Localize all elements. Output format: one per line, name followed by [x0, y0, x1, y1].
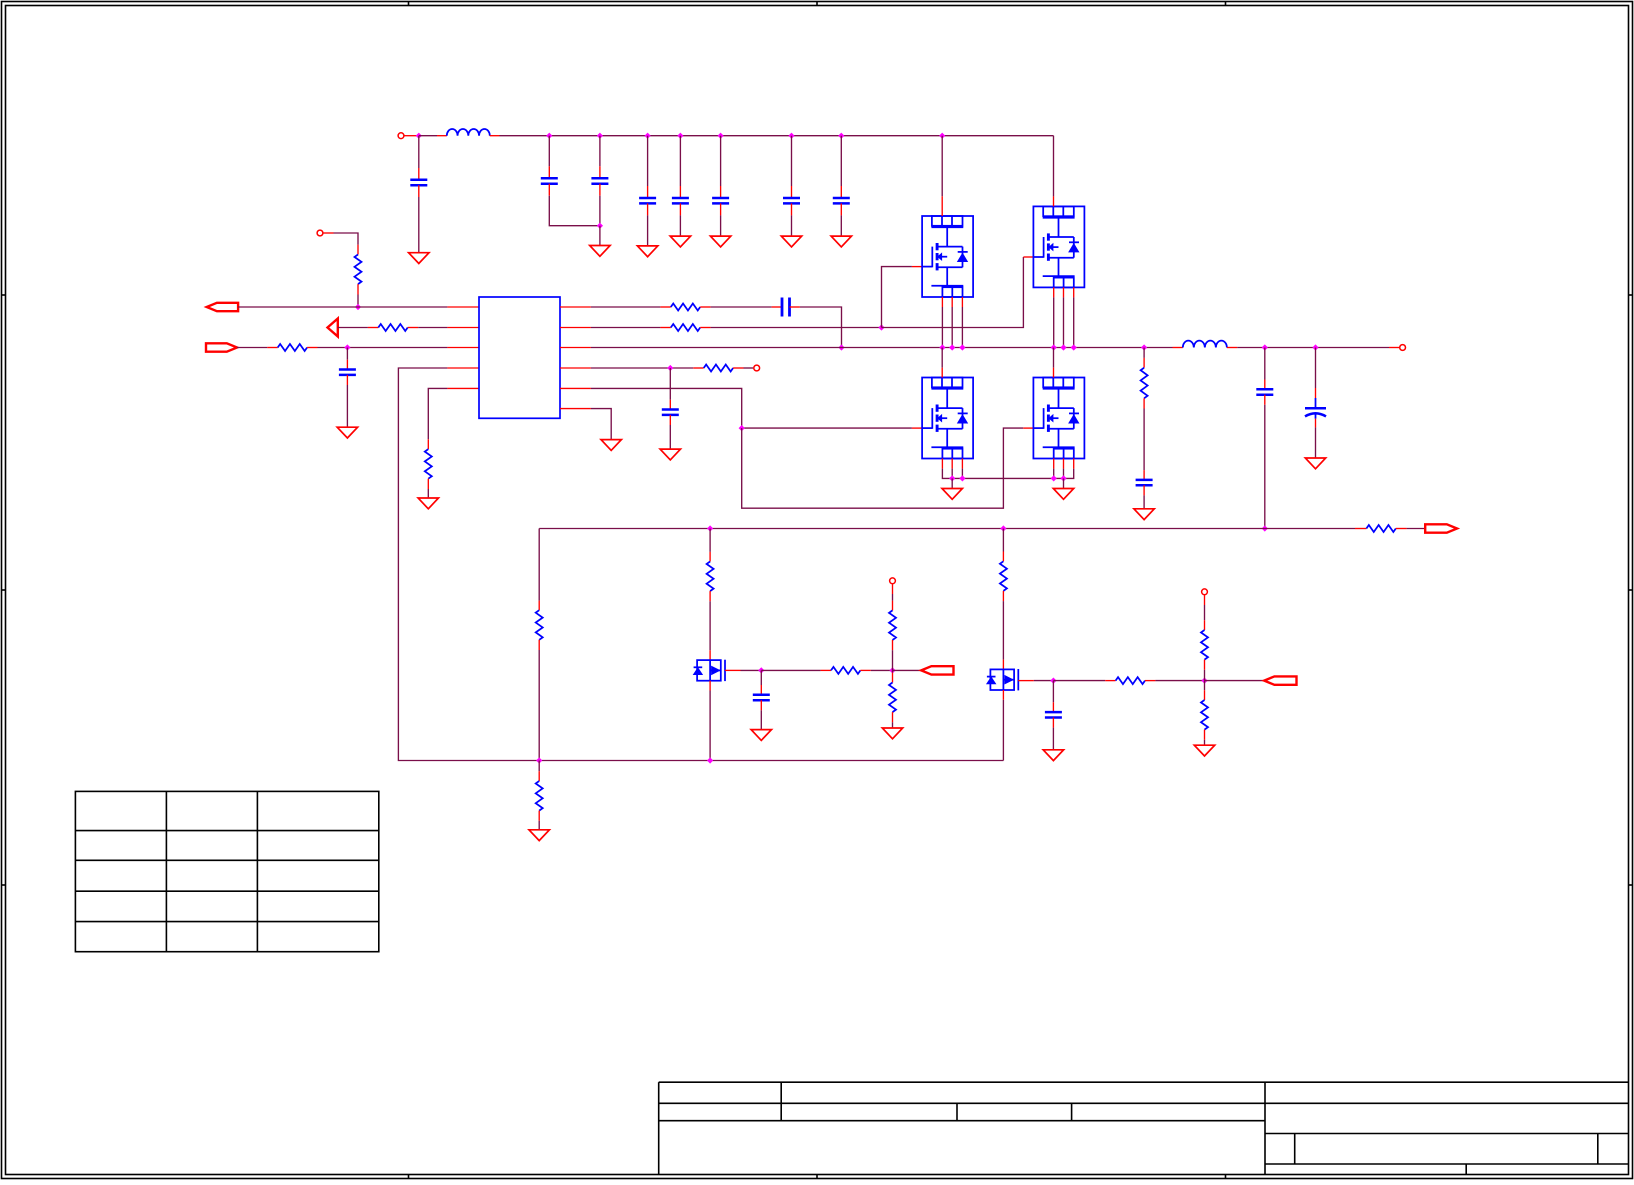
ground under R11 [529, 830, 549, 841]
pin of R2 [408, 327, 419, 329]
pin 6 of U1 [560, 306, 591, 308]
source pin of Q1 [941, 297, 943, 307]
wire C3 bottom [599, 196, 601, 226]
port P5 [921, 666, 953, 674]
pin of C16 [1052, 702, 1054, 712]
wire C9 to ground [346, 385, 348, 427]
junction [718, 133, 724, 139]
pin of C3 [599, 166, 601, 178]
wire U1 ground pin [591, 409, 611, 440]
pin of C1 [418, 168, 420, 180]
resistor R13 [831, 667, 860, 674]
pin of J5 [892, 584, 894, 594]
wire Q1 source [941, 307, 943, 348]
source pin of Q1 [961, 297, 963, 307]
transistor M6 [987, 669, 1018, 690]
pin of C8 [840, 186, 842, 198]
capacitor C10 [781, 298, 784, 317]
title block [659, 1082, 1629, 1174]
wire C16 top [1052, 681, 1054, 703]
ground under R19 [1194, 745, 1214, 756]
pin of C5 [679, 186, 681, 198]
wire Q1 drain [941, 136, 943, 197]
capacitor C13 [1256, 388, 1273, 391]
wire feedback row [539, 528, 1355, 530]
pin of C5 [679, 203, 681, 215]
pin of J3 [1389, 347, 1399, 349]
source pin of Q2 [1053, 287, 1055, 297]
pin of J2 [323, 232, 333, 234]
wire R9 to P4 [1407, 528, 1426, 530]
pin 2 of U1 [447, 327, 479, 329]
junction [949, 475, 955, 481]
wire C11 top [669, 368, 671, 400]
wire Q2 source [1063, 297, 1065, 347]
pin of R3 [267, 347, 277, 349]
wire Q1 source [951, 307, 953, 348]
wire R5 to C10 [711, 306, 772, 308]
wire C9 top [346, 348, 348, 360]
pin of R11 [538, 771, 540, 781]
pin 7 of U1 [560, 327, 591, 329]
pin of C2 [548, 166, 550, 178]
wire C1 top [418, 136, 420, 168]
pin of R1 [357, 284, 359, 294]
junction [889, 667, 895, 673]
pin of C11 [669, 415, 671, 425]
resistor R8 [1141, 368, 1148, 399]
terminal J6 [1202, 589, 1208, 595]
pin of L2 [1227, 347, 1237, 349]
pin of R2 [368, 327, 378, 329]
source pin of Q2 [1063, 287, 1065, 297]
wire SW row [591, 347, 1173, 349]
capacitor C12 [1136, 479, 1153, 482]
wire Q2 source [1073, 297, 1075, 347]
wire R3 to U1 [318, 347, 448, 349]
wire P3 to R3 [237, 347, 267, 349]
resistor R4 [425, 449, 432, 479]
port P4 [1425, 524, 1457, 532]
pin of C10 [790, 306, 800, 308]
pin 3 of U1 [447, 347, 479, 349]
wire R11 top [538, 761, 540, 772]
wire C13 to row B [1264, 405, 1266, 529]
pin of R3 [307, 347, 317, 349]
pin 8 of U1 [560, 347, 591, 349]
pin of C6 [720, 203, 722, 215]
resistor R1 [355, 255, 362, 285]
wire M6 gate [1034, 680, 1054, 682]
capacitor C16 [1045, 711, 1062, 714]
wire divider top [538, 529, 540, 601]
wire U1 to R6 [591, 327, 661, 329]
capacitor C3 [591, 177, 608, 180]
wire Q4 drain [1053, 348, 1055, 368]
capacitor C6 [712, 197, 729, 200]
wire to power ground [951, 478, 953, 488]
pin of C1 [418, 185, 420, 197]
output terminal J3 [1400, 345, 1406, 351]
wire R6 to Q1 gate [711, 327, 882, 329]
pin of L2 [1173, 347, 1183, 349]
junction [878, 324, 884, 330]
junction [1071, 344, 1077, 350]
pin of R5 [660, 306, 670, 308]
wire R14 to junction [892, 650, 894, 670]
wire C15 top [760, 670, 762, 685]
ground under C12 [1134, 509, 1154, 520]
pin of R13 [860, 669, 870, 671]
junction [677, 133, 683, 139]
power ground [1053, 489, 1073, 500]
resistor R10 [536, 610, 543, 640]
wire R8 to C12 [1143, 409, 1145, 471]
ground under C11 [660, 449, 680, 460]
capacitor C14 polarized [1305, 407, 1326, 410]
pin of R6 [700, 327, 710, 329]
pin 1 of U1 [447, 306, 479, 308]
pin of R12 [709, 591, 711, 601]
pin of R8 [1143, 358, 1145, 368]
wire R16 to M6 [1002, 601, 1004, 660]
pin of C15 [760, 700, 762, 710]
pin 10 of U1 [560, 387, 591, 389]
pin of R12 [709, 552, 711, 562]
resistor R12 [707, 562, 714, 592]
source pin of Q3 [961, 459, 963, 469]
wire M5 chain top [709, 529, 711, 552]
wire C4 bottom [647, 215, 649, 246]
wire P1 to U1 [238, 306, 447, 308]
wire VIN rail [419, 135, 437, 137]
wire R17 to junction [1155, 680, 1204, 682]
wire C1 to ground [418, 197, 420, 253]
pin of C4 [647, 186, 649, 198]
wire P2 to R2 [338, 327, 368, 329]
wire C5 bottom [679, 215, 681, 236]
junction [838, 344, 844, 350]
pin of C7 [791, 203, 793, 215]
wire Q3 source [961, 469, 963, 479]
wire junction to R19 [1204, 681, 1206, 691]
drain pin of Q4 [1053, 368, 1055, 378]
transistor Q2 [1033, 206, 1084, 287]
gate pin of Q1 [912, 266, 922, 268]
drain pin of M6 [1002, 660, 1004, 670]
resistor R19 [1201, 700, 1208, 730]
junction [1060, 344, 1066, 350]
wire R15 to ground [892, 722, 894, 728]
wire to power ground [1063, 478, 1065, 488]
wire Q1 source [961, 307, 963, 348]
wire M6 source [1002, 700, 1004, 761]
resistor R16 [1000, 561, 1007, 591]
ground under C4 [637, 246, 657, 257]
pin of R9 [1396, 528, 1407, 530]
wire C10 to SW [800, 307, 842, 348]
junction [838, 133, 844, 139]
junction [344, 344, 350, 350]
wire Q4 source [1053, 469, 1055, 479]
junction [959, 344, 965, 350]
pin of C2 [548, 184, 550, 196]
pin of C10 [772, 306, 782, 308]
junction [707, 525, 713, 531]
pin of R10 [538, 640, 540, 650]
capacitor C4 [639, 197, 656, 200]
input terminal J1 [398, 133, 404, 139]
wire junction to R15 [892, 670, 894, 672]
inductor L1 [447, 129, 490, 136]
pin 5 of U1 [447, 387, 479, 389]
wire Q2 gate [882, 257, 1024, 328]
terminal J4 [754, 365, 760, 371]
capacitor C2 [541, 177, 558, 180]
wire Q2 source [1053, 297, 1055, 347]
wire C13 top [1264, 348, 1266, 380]
pin of R18 [1204, 660, 1206, 670]
source pin of Q1 [951, 297, 953, 307]
junction [597, 223, 603, 229]
wire U1 to Q3 gate [591, 388, 912, 428]
wire U1 pin5 to R4 [428, 388, 447, 439]
wire R4 to ground [427, 489, 429, 498]
junction [1312, 344, 1318, 350]
drain pin of Q1 [941, 196, 943, 216]
pin of R5 [700, 306, 710, 308]
junction [707, 757, 713, 763]
pin of R4 [427, 439, 429, 449]
wire to R13 [761, 669, 820, 671]
junction [645, 133, 651, 139]
drain pin of Q2 [1053, 196, 1055, 206]
pin of R1 [357, 245, 359, 255]
ground under C15 [751, 730, 771, 741]
pin 11 of U1 [560, 408, 591, 410]
junction [788, 133, 794, 139]
port P6 [1264, 676, 1296, 684]
transistor M5 [694, 660, 725, 681]
wire C7 bottom [791, 215, 793, 236]
pin of C14 [1315, 419, 1317, 428]
ground under C8 [831, 236, 851, 247]
wire to P6 [1205, 680, 1265, 682]
enable terminal J2 [317, 230, 323, 236]
junction [1050, 678, 1056, 684]
gate pin of Q4 [1023, 427, 1033, 429]
source pin of Q2 [1073, 287, 1075, 297]
ground under C1 [409, 253, 429, 264]
gate pin of Q3 [912, 427, 922, 429]
wire R18 to junction [1204, 670, 1206, 681]
junction [1262, 525, 1268, 531]
pin of R16 [1002, 591, 1004, 601]
wire U1 to R5 [591, 306, 661, 308]
source pin of Q4 [1063, 459, 1065, 469]
resistor R17 [1116, 677, 1145, 684]
wire U1 pin4 to lower section [398, 368, 1003, 761]
wire C3 top [599, 136, 601, 167]
wire Q3 source row [942, 469, 1073, 479]
junction [355, 304, 361, 310]
capacitor C5 [672, 197, 689, 200]
junction [1262, 344, 1268, 350]
pin of C16 [1052, 718, 1054, 728]
junction [949, 344, 955, 350]
pin of C14 [1315, 388, 1317, 398]
source pin of Q4 [1053, 459, 1055, 469]
wire C8 bottom [840, 215, 842, 236]
pin of J6 [1204, 595, 1206, 605]
ground under U1 [601, 440, 621, 451]
pin of R17 [1145, 680, 1155, 682]
gate pin of Q2 [1023, 256, 1033, 258]
junction [1060, 475, 1066, 481]
pin of C13 [1264, 395, 1266, 405]
junction [1141, 344, 1147, 350]
wire R12 to M5 [709, 601, 711, 650]
wire Q1 gate riser [882, 267, 912, 328]
ground under C5 [670, 236, 690, 247]
pin of R9 [1355, 528, 1366, 530]
junction [959, 475, 965, 481]
wire R13 to junction [871, 669, 893, 671]
wire M6 chain top [1002, 529, 1004, 552]
pin of R19 [1204, 730, 1206, 740]
transistor Q3 [922, 378, 973, 459]
ground under C3 [590, 246, 610, 257]
ground under C16 [1043, 750, 1063, 761]
port P2 [328, 319, 338, 337]
pin of C8 [840, 203, 842, 215]
wire Q2 drain [1053, 136, 1055, 197]
pin of C13 [1264, 380, 1266, 390]
wire sense top [1143, 348, 1145, 358]
wire R10 to row C [538, 650, 540, 761]
junction [939, 133, 945, 139]
wire C14 to ground [1315, 427, 1317, 458]
resistor R9 [1366, 525, 1395, 532]
resistor R11 [536, 781, 543, 811]
junction [939, 344, 945, 350]
wire C5 top [679, 136, 681, 186]
gate pin of M6 [1018, 680, 1034, 682]
capacitor C7 [783, 197, 800, 200]
capacitor C15 [753, 694, 770, 697]
terminal J5 [890, 578, 896, 584]
wire to P5 [893, 669, 922, 671]
pin of R6 [660, 327, 670, 329]
wire VIN rail to Q2 [500, 135, 1054, 137]
wire Q3 drain [941, 348, 943, 368]
junction [416, 133, 422, 139]
source pin of Q4 [1073, 459, 1075, 469]
gate pin of M5 [725, 669, 741, 671]
ground under R4 [418, 498, 438, 509]
resistor R7 [704, 365, 733, 372]
pin of R17 [1105, 680, 1115, 682]
pin of C3 [599, 184, 601, 196]
wire C8 top [840, 136, 842, 186]
wire C11 to ground [669, 425, 671, 449]
pin of R14 [892, 601, 894, 611]
resistor R18 [1201, 630, 1208, 660]
wire R11 to ground [538, 821, 540, 830]
junction [1051, 344, 1057, 350]
wire Q3 source [951, 469, 953, 479]
wire C16 to ground [1052, 728, 1054, 750]
pin of R15 [892, 673, 894, 683]
drain pin of Q3 [941, 368, 943, 378]
pin of C12 [1143, 485, 1145, 495]
wire C6 bottom [720, 215, 722, 236]
drain pin of M5 [709, 650, 711, 660]
wire C2 bottom [549, 196, 600, 226]
wire C15 to ground [760, 710, 762, 729]
pin of R8 [1143, 398, 1145, 408]
pin of J1 [404, 135, 419, 137]
port P1 [207, 303, 238, 311]
junction [536, 757, 542, 763]
pin of C9 [346, 360, 348, 370]
wire R1 to row1 [357, 295, 359, 308]
pin of C12 [1143, 470, 1145, 480]
capacitor C11 [662, 408, 679, 411]
port P3 [206, 343, 237, 351]
pin of R10 [538, 601, 540, 611]
wire to R17 [1053, 680, 1105, 682]
junction [1000, 525, 1006, 531]
wire C4 top [647, 136, 649, 186]
resistor R15 [889, 683, 896, 713]
wire U1 to R7 [591, 367, 693, 369]
resistor R2 [378, 324, 407, 331]
pin of L1 [437, 135, 447, 137]
resistor R14 [889, 610, 896, 640]
pin of C4 [647, 203, 649, 215]
source pin of M5 [709, 681, 711, 691]
pin of C9 [346, 375, 348, 385]
transistor Q4 [1033, 378, 1084, 459]
junction [1051, 475, 1057, 481]
op-amp U1 controller [479, 297, 560, 418]
resistor R3 [278, 344, 307, 351]
resistor R5 [671, 304, 700, 311]
pin of R14 [892, 640, 894, 650]
wire C7 top [791, 136, 793, 186]
ground under C9 [337, 427, 357, 438]
pin of R15 [892, 712, 894, 722]
ground under C6 [710, 236, 730, 247]
pin of L1 [490, 135, 500, 137]
wire C6 top [720, 136, 722, 186]
pin of C15 [760, 685, 762, 695]
pin of C11 [669, 400, 671, 410]
transistor Q1 [922, 216, 973, 297]
ground under R15 [882, 728, 902, 739]
power ground [942, 489, 962, 500]
pin 9 of U1 [560, 367, 591, 369]
capacitor C9 [339, 368, 356, 371]
pin of R7 [733, 367, 743, 369]
wire J2 to R1 [334, 233, 359, 245]
wire C12 to ground [1143, 495, 1145, 508]
pin of C6 [720, 186, 722, 198]
pin of R18 [1204, 620, 1206, 630]
pin of R19 [1204, 690, 1206, 700]
capacitor C8 [833, 197, 850, 200]
